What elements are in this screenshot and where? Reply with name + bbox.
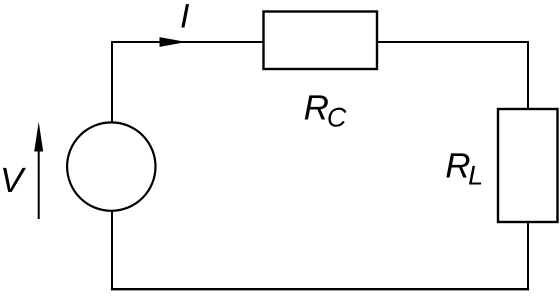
wire [111,211,113,290]
voltage source V1 [67,122,155,210]
resistor RC [264,12,378,70]
svg-text:I: I [180,0,190,36]
wire [112,42,263,123]
resistor RL [498,109,558,222]
wire [111,288,529,290]
voltage arrow [38,148,40,219]
svg-text:V: V [0,161,27,200]
wire [377,42,528,109]
wire [527,222,529,290]
current arrow [160,37,187,47]
